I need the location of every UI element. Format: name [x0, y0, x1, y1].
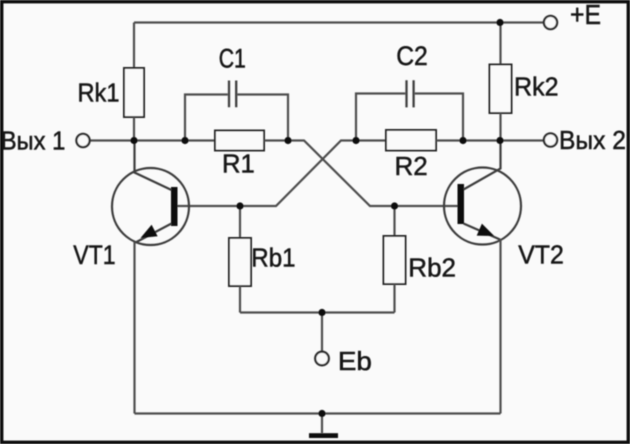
transistor VT1 base bar: [171, 187, 178, 226]
svg-text:Rb2: Rb2: [408, 253, 456, 283]
wire R2 left to VT1 base (diagonal cross): [178, 141, 387, 207]
wire VT1 emitter down: [133, 242, 135, 414]
svg-text:Rk2: Rk2: [514, 72, 559, 102]
wire Rk1 bottom lead: [133, 117, 135, 141]
wire output 2 line: [436, 139, 544, 141]
svg-text:C1: C1: [219, 44, 246, 74]
wire Rb1 top lead: [239, 206, 241, 238]
svg-text:+E: +E: [570, 0, 601, 30]
resistor R2: [386, 130, 436, 151]
VT2 emitter arrow: [477, 224, 495, 236]
ground: [309, 433, 338, 438]
transistor VT2 circle: [444, 168, 521, 245]
node VT1 base / Rb1: [236, 202, 243, 209]
wire Rb2 bottom lead: [393, 284, 395, 313]
terminal Вых 2: [544, 133, 557, 146]
resistor Rk1: [124, 68, 144, 117]
wire Rk1 top lead: [133, 23, 135, 69]
wire ground stub: [321, 414, 323, 434]
wire Rb1 bottom lead: [239, 286, 241, 313]
capacitor C2 plates: [407, 80, 414, 107]
resistor Rb1: [229, 238, 251, 286]
node ground rail: [318, 410, 325, 417]
wire Rb2 top lead: [393, 206, 395, 236]
transistor VT2 base bar: [458, 184, 465, 224]
wire VT1 emitter: [136, 224, 172, 243]
wire R1 right to VT2 base (diagonal cross): [264, 141, 458, 207]
svg-text:R2: R2: [395, 151, 428, 181]
node Rk2/collector/out2: [496, 137, 503, 144]
node C1 left / R1 left: [181, 137, 188, 144]
wire Eb stub: [321, 313, 323, 352]
wire Rk2 top lead: [499, 23, 501, 65]
resistor Rb2: [384, 236, 406, 284]
svg-text:Вых 1: Вых 1: [1, 126, 66, 156]
wire top rail: [134, 21, 544, 23]
resistor Rk2: [490, 65, 512, 114]
capacitor C1 plates: [229, 81, 236, 108]
terminal Eb: [315, 352, 329, 366]
VT1 emitter arrow: [141, 225, 158, 238]
svg-text:Rk1: Rk1: [78, 77, 120, 107]
wire bottom rail: [135, 412, 501, 414]
capacitor C2 bracket right: [415, 94, 463, 141]
node Eb rail: [318, 309, 325, 316]
wire output 1 line: [90, 139, 215, 141]
svg-text:Rb1: Rb1: [251, 243, 295, 273]
terminal +E: [544, 16, 557, 29]
svg-text:VT1: VT1: [73, 240, 115, 270]
svg-text:C2: C2: [396, 41, 428, 71]
wire base bias rail: [240, 311, 395, 313]
node +E rail: [496, 19, 503, 26]
terminal Вых 1: [76, 134, 89, 147]
wire VT2 emitter down: [499, 240, 501, 414]
node C2 right / R2 right: [459, 137, 466, 144]
svg-text:VT2: VT2: [518, 239, 564, 269]
svg-text:Eb: Eb: [338, 346, 372, 376]
wire Rk2 bottom lead: [499, 113, 501, 141]
svg-text:R1: R1: [222, 148, 255, 178]
wire VT1 collector: [135, 141, 172, 191]
node C1 right / R1 right: [284, 137, 291, 144]
wire VT2 collector: [464, 141, 501, 190]
wire VT2 emitter: [464, 224, 501, 240]
transistor VT1 circle: [112, 168, 189, 245]
svg-text:Вых 2: Вых 2: [559, 125, 626, 155]
capacitor C1 bracket left: [185, 95, 228, 141]
capacitor C2 bracket left: [356, 94, 405, 141]
node VT2 base / Rb2: [391, 202, 398, 209]
resistor R1: [215, 131, 264, 151]
node Rk1/collector/out1: [130, 137, 137, 144]
capacitor C1 bracket right: [237, 95, 288, 141]
node C2 left / R2 left: [352, 137, 359, 144]
